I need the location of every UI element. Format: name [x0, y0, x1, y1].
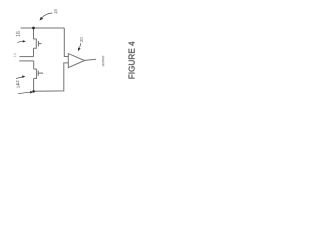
arrow for label 14	[18, 91, 34, 94]
arrow for label 16	[17, 40, 26, 42]
wire upper transistor drain	[33, 28, 35, 39]
node B bottom junction dot	[32, 90, 35, 93]
wire top rail	[21, 27, 65, 29]
arrow curved for label 18	[40, 13, 53, 21]
svg-text:10: 10	[12, 52, 17, 57]
wire lower stub	[19, 60, 34, 62]
wire right vertical from top rail to buffer upper input	[64, 28, 68, 57]
svg-text:20: 20	[79, 37, 84, 42]
transistor Q1 upper	[34, 39, 37, 48]
wire lower transistor drain	[33, 61, 35, 69]
wire output	[85, 59, 97, 60]
arrow for label 20	[78, 43, 81, 51]
svg-text:18: 18	[53, 9, 58, 14]
wire upper stub	[20, 56, 34, 58]
node A top junction dot	[32, 27, 35, 30]
transistor Q2 lower	[34, 69, 37, 78]
gate lead end tick Q2	[42, 73, 43, 74]
svg-text:16: 16	[16, 31, 22, 37]
wire upper transistor source to upper stub	[33, 48, 35, 56]
wire buffer lower input wrap-around	[34, 63, 69, 91]
svg-text:FIGURE 4: FIGURE 4	[128, 41, 137, 79]
op-amp U1 buffer triangle	[68, 54, 84, 68]
svg-text:14: 14	[16, 83, 21, 88]
svg-text:OUTPUT: OUTPUT	[101, 55, 105, 66]
arrow for label 12	[16, 76, 25, 79]
wire lower transistor source to bottom rail	[33, 78, 35, 91]
